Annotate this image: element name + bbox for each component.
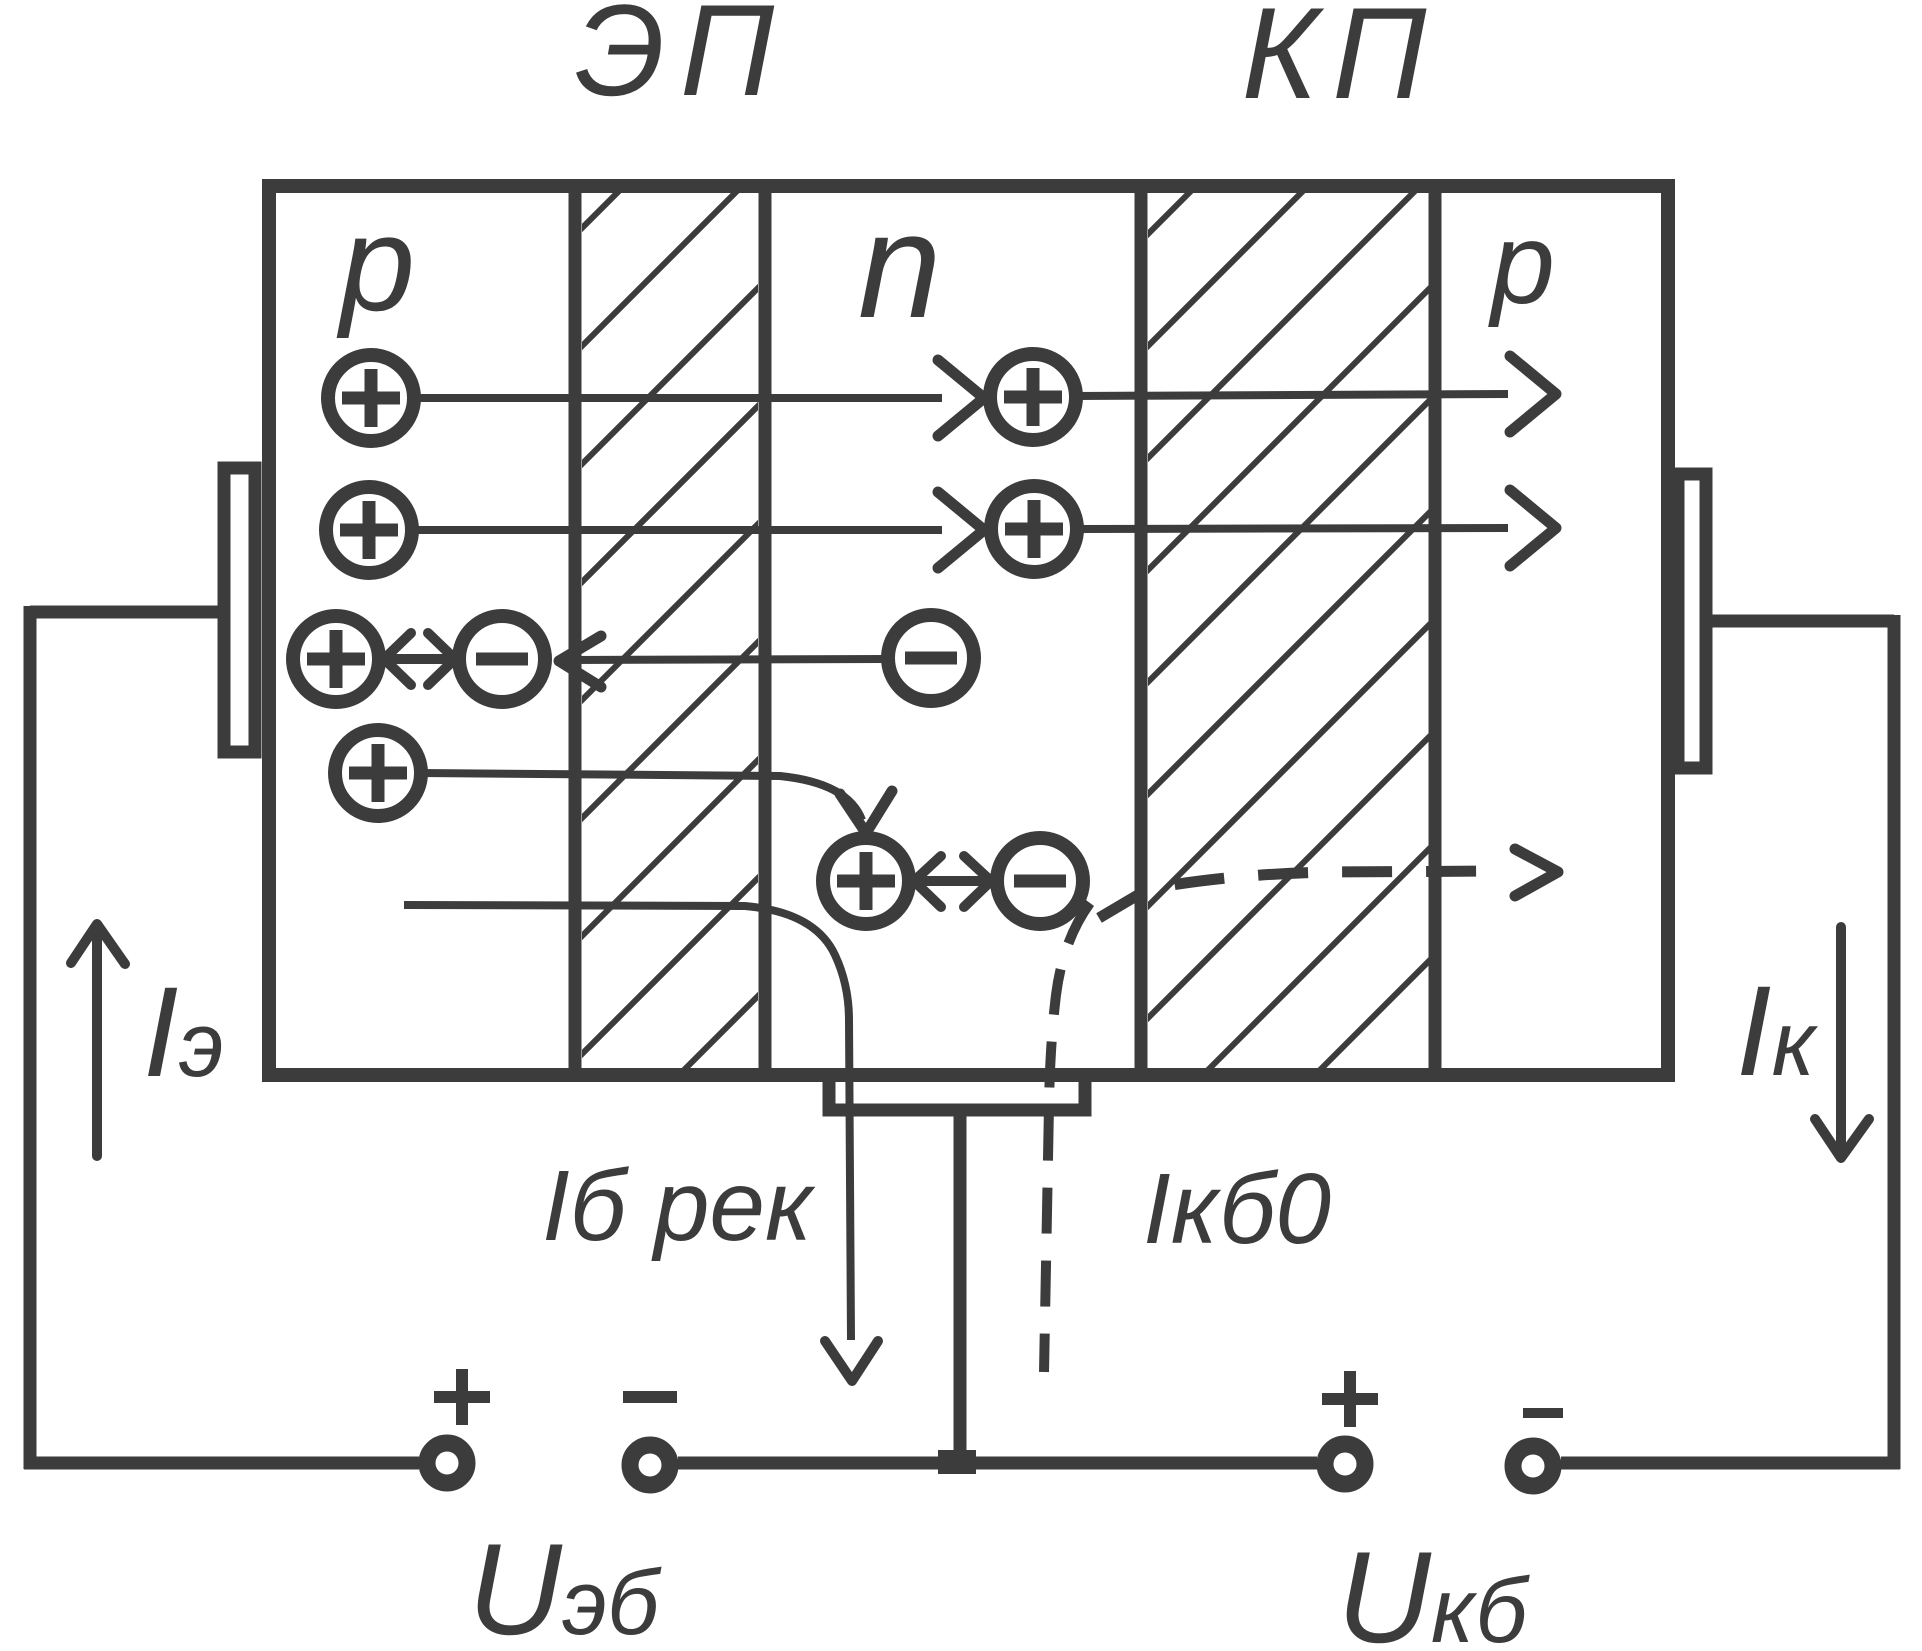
electron E3 recombining	[997, 838, 1083, 924]
recombination link R2	[914, 856, 991, 907]
electron E1 recombining	[459, 616, 545, 702]
emitter junction left edge	[569, 186, 582, 1075]
svg-text:n: n	[858, 181, 941, 349]
hole H4	[991, 486, 1077, 572]
plus sign Uэб	[434, 1369, 490, 1425]
svg-text:p: p	[1488, 200, 1555, 328]
bottom wire left segment	[24, 1457, 419, 1470]
hole H7 recombining	[823, 838, 909, 924]
base wire vertical	[954, 1110, 967, 1463]
terminal minus Uкб	[1513, 1446, 1553, 1486]
emitter plate	[224, 468, 255, 752]
svg-text:Iб рек: Iб рек	[542, 1150, 816, 1262]
arrowhead into H4	[938, 492, 984, 568]
bottom wire right segment	[1561, 1457, 1900, 1470]
dashed wire Iкб0 horizontal	[1099, 871, 1506, 918]
wire hole H2 path	[1076, 394, 1508, 396]
minus sign Uкб	[1523, 1408, 1563, 1418]
arrowhead H2 exit	[1510, 356, 1556, 432]
arrowhead into H7	[840, 791, 892, 833]
plus sign Uкб	[1322, 1371, 1378, 1427]
dashed wire Iкб0 down branch	[1044, 903, 1090, 1372]
collector wire horizontal	[1706, 615, 1894, 628]
svg-text:p: p	[336, 188, 415, 339]
hole H6	[335, 730, 421, 816]
arrowhead H4 exit	[1510, 490, 1556, 566]
collector plate	[1678, 474, 1706, 768]
hole H2	[990, 354, 1076, 440]
svg-text:Iк: Iк	[1736, 960, 1819, 1103]
emitter junction hatching	[0, 186, 1568, 1075]
collector junction hatching	[307, 186, 1922, 1075]
wire electron E2 path	[570, 659, 885, 660]
wire hole H1 path	[414, 394, 942, 402]
bottom wire middle segment	[678, 1457, 1317, 1470]
svg-text:Iкб0: Iкб0	[1143, 1153, 1331, 1265]
arrowhead Iб рек	[825, 1341, 878, 1381]
emitter junction right edge	[759, 186, 772, 1075]
terminal plus Uэб	[427, 1443, 467, 1483]
hole H5 recombining	[293, 616, 379, 702]
arrowhead electron E2 travel	[559, 636, 601, 687]
terminal plus Uкб	[1325, 1444, 1365, 1484]
arrowhead into H2	[938, 360, 984, 436]
wire Iб рек recombination current	[404, 905, 851, 1340]
base plate	[829, 1079, 1085, 1110]
wire hole H4 path	[1077, 528, 1508, 529]
transistor body outline	[269, 186, 1668, 1075]
svg-text:Uкб: Uкб	[1337, 1524, 1530, 1651]
wire hole H6 curving into base	[421, 773, 862, 820]
hole H3	[326, 487, 412, 573]
base junction dot	[938, 1450, 976, 1474]
arrow Iэ emitter current	[71, 924, 125, 1156]
electron E2	[888, 615, 974, 701]
wire hole H3 path	[412, 526, 942, 534]
minus sign Uэб	[623, 1391, 677, 1403]
recombination link R1	[384, 633, 455, 685]
svg-text:Uэб: Uэб	[468, 1516, 662, 1651]
collector wire vertical	[1888, 615, 1901, 1469]
svg-text:КП: КП	[1242, 0, 1441, 126]
collector junction left edge	[1135, 186, 1148, 1075]
svg-text:Iэ: Iэ	[143, 961, 224, 1104]
svg-text:ЭП: ЭП	[575, 0, 789, 123]
arrow Iк collector current	[1815, 927, 1869, 1158]
hole H1	[328, 355, 414, 441]
dashed arrowhead Iкб0	[1515, 849, 1558, 896]
emitter wire horizontal	[30, 606, 224, 619]
collector junction right edge	[1429, 186, 1442, 1075]
terminal minus Uэб	[630, 1445, 670, 1485]
emitter wire vertical	[24, 606, 37, 1469]
